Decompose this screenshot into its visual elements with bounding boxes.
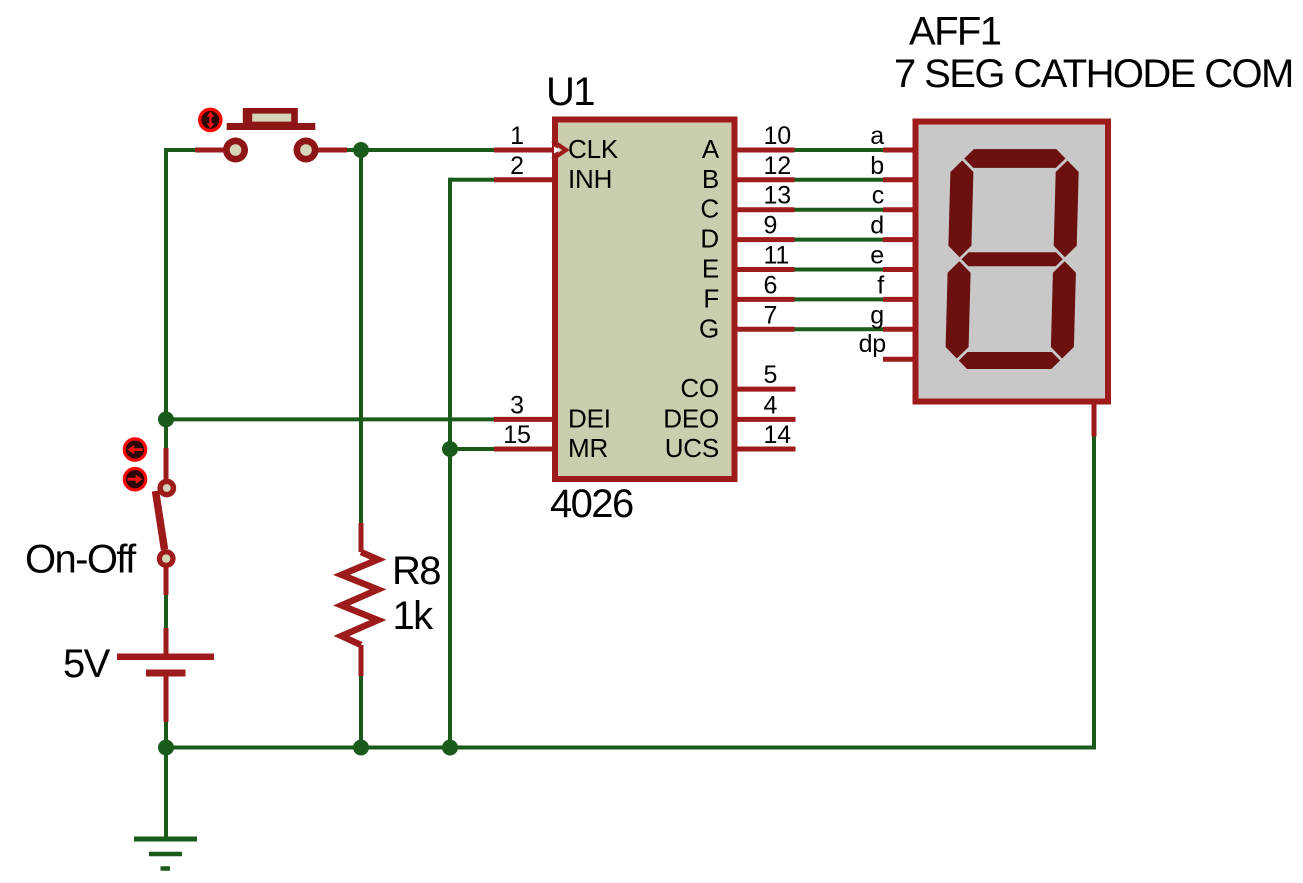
wire bottom rail (166, 746, 1096, 750)
svg-text:f: f (877, 271, 884, 299)
pin stub B pin 12 (736, 177, 795, 182)
wire R8 bottom to ground rail (359, 676, 363, 748)
pin stub INH pin 2 (494, 177, 553, 182)
wire battery to ground rail (164, 722, 168, 748)
display AFF1 body (916, 122, 1109, 402)
wire g (794, 327, 884, 331)
svg-text:1: 1 (510, 122, 524, 150)
svg-text:C: C (700, 194, 719, 224)
svg-text:6: 6 (764, 271, 778, 299)
display segment G (962, 252, 1063, 266)
junction dot DEI left (158, 411, 174, 427)
display segment D (959, 352, 1060, 369)
svg-text:U1: U1 (546, 70, 594, 114)
svg-text:MR: MR (568, 433, 608, 463)
junction dot rail left (158, 740, 174, 756)
display stub d (883, 237, 914, 242)
svg-text:c: c (872, 182, 884, 210)
svg-text:B: B (702, 164, 719, 194)
switch On-Off (156, 448, 177, 595)
junction dot MR (442, 441, 458, 457)
pin stub CLK pin 1 (494, 148, 553, 153)
svg-text:1k: 1k (393, 594, 435, 638)
svg-text:CO: CO (680, 373, 719, 403)
pin stub E pin 11 (736, 267, 795, 272)
display stub f (883, 297, 914, 302)
svg-text:4026: 4026 (550, 482, 633, 526)
svg-text:G: G (699, 313, 719, 343)
svg-text:11: 11 (764, 242, 790, 270)
op ic U1 body (555, 120, 735, 480)
wire vertical to R8 top (359, 150, 363, 523)
svg-text:9: 9 (764, 212, 778, 240)
wire INH horizontal (450, 178, 494, 182)
wire corner top-left (164, 150, 166, 154)
svg-text:10: 10 (764, 122, 791, 150)
switch actuator down (124, 469, 145, 490)
svg-text:4: 4 (764, 391, 778, 419)
wire INH vertical down (448, 178, 452, 748)
display segment B (1054, 161, 1079, 258)
svg-text:b: b (870, 152, 884, 180)
svg-text:INH: INH (568, 164, 612, 194)
display segment E (946, 261, 971, 358)
pin stub A pin 10 (736, 148, 795, 153)
svg-text:DEO: DEO (663, 403, 719, 433)
svg-text:g: g (870, 301, 884, 329)
svg-text:d: d (870, 212, 884, 240)
pin stub DEO pin 4 (736, 417, 796, 422)
wire switch to battery (164, 594, 168, 628)
wire top horizontal to button (164, 148, 195, 152)
push button SW (195, 108, 347, 163)
switch actuator up (124, 439, 145, 460)
display stub g (883, 327, 914, 332)
display segment A (964, 149, 1065, 168)
junction dot rail INH (442, 740, 458, 756)
svg-text:F: F (703, 283, 719, 313)
svg-text:3: 3 (510, 391, 524, 419)
wire a (794, 148, 884, 152)
wire button to CLK (347, 148, 494, 152)
svg-text:E: E (702, 254, 719, 284)
wire left vertical top (164, 148, 168, 449)
pin stub F pin 6 (736, 297, 795, 302)
wire DEI horizontal (166, 417, 494, 421)
junction dot rail R8 (353, 740, 369, 756)
pin stub CO pin 5 (736, 387, 796, 392)
wire display common vertical (1092, 437, 1096, 748)
display stub common bottom (1092, 404, 1097, 437)
svg-text:AFF1: AFF1 (909, 10, 1001, 54)
junction dot button/R8 (353, 142, 369, 158)
wire ground drop (164, 748, 168, 840)
svg-text:CLK: CLK (568, 134, 619, 164)
resistor R8 (342, 523, 379, 676)
pin stub D pin 9 (736, 237, 795, 242)
svg-text:R8: R8 (392, 549, 440, 593)
wire c (794, 208, 884, 212)
display stub c (883, 207, 914, 212)
svg-text:dp: dp (859, 330, 886, 358)
svg-text:14: 14 (764, 421, 792, 449)
pin stub C pin 13 (736, 207, 795, 212)
pin stub G pin 7 (736, 327, 795, 332)
svg-text:15: 15 (503, 421, 530, 449)
wire d (794, 238, 884, 242)
display stub a (883, 148, 914, 153)
svg-text:A: A (702, 134, 720, 164)
svg-text:e: e (870, 242, 884, 270)
display segment F (948, 161, 973, 258)
svg-text:DEI: DEI (568, 403, 611, 433)
wire e (794, 268, 884, 272)
display stub b (883, 177, 914, 182)
wire MR horizontal (450, 447, 494, 451)
svg-text:12: 12 (764, 152, 791, 180)
pin stub UCS pin 14 (736, 447, 796, 452)
svg-text:2: 2 (510, 152, 524, 180)
svg-text:7: 7 (764, 301, 778, 329)
display stub dp (883, 357, 914, 362)
pin stub MR pin 15 (494, 447, 553, 452)
ground (134, 839, 197, 869)
pin stub DEI pin 3 (494, 417, 553, 422)
svg-text:7 SEG CATHODE COM: 7 SEG CATHODE COM (894, 52, 1293, 96)
svg-text:UCS: UCS (665, 433, 719, 463)
wire b (794, 178, 884, 182)
svg-text:5: 5 (764, 361, 778, 389)
display stub e (883, 267, 914, 272)
wire f (794, 297, 884, 301)
svg-text:On-Off: On-Off (25, 538, 137, 582)
push button actuator (200, 109, 221, 130)
svg-text:13: 13 (764, 182, 791, 210)
svg-text:5V: 5V (63, 642, 111, 686)
battery 5V (117, 628, 214, 722)
svg-text:a: a (870, 122, 884, 150)
display segment C (1051, 261, 1076, 358)
svg-text:D: D (700, 224, 719, 254)
clock chevron pin1 (554, 147, 561, 154)
